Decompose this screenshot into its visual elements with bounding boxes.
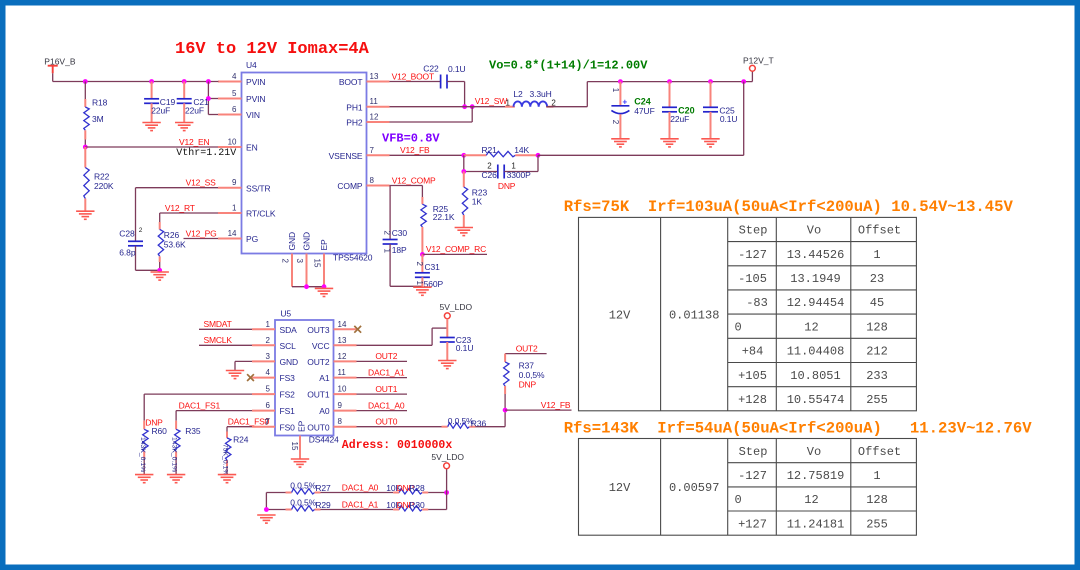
svg-text:7: 7	[264, 418, 269, 427]
U5 pin 8 OUT0	[307, 417, 356, 432]
svg-text:GND: GND	[280, 357, 299, 367]
svg-text:RT/CLK: RT/CLK	[246, 209, 276, 219]
port P12V_T	[743, 56, 774, 82]
svg-text:143K_0.1%: 143K_0.1%	[139, 437, 146, 472]
inductor L2	[505, 89, 556, 108]
svg-text:5: 5	[232, 89, 237, 98]
table2 title Rfs=143K	[564, 420, 1033, 438]
svg-text:22uF: 22uF	[185, 105, 204, 115]
svg-text:1: 1	[266, 320, 271, 329]
capacitor C24	[611, 82, 654, 139]
svg-text:0.00597: 0.00597	[669, 481, 719, 495]
U5 pin 2 SCL	[252, 336, 296, 351]
svg-text:5V_LDO: 5V_LDO	[431, 452, 464, 462]
svg-text:FS0: FS0	[280, 422, 296, 432]
wire VCC net	[357, 328, 448, 345]
svg-text:0: 0	[735, 493, 742, 507]
U4 pin 14 PG	[218, 229, 258, 244]
svg-text:128: 128	[866, 320, 888, 334]
svg-text:V12_RT: V12_RT	[165, 203, 195, 213]
U4 pin 1 RT/CLK	[218, 204, 276, 219]
wire OUT2 top net	[505, 343, 546, 353]
svg-text:18P: 18P	[392, 245, 407, 255]
svg-text:OUT2: OUT2	[516, 343, 538, 353]
port 5V_LDO bottom	[431, 452, 464, 469]
svg-text:13.1949: 13.1949	[790, 272, 840, 286]
ground R24	[218, 475, 236, 483]
ground U5 gnd pin	[226, 371, 244, 379]
U5 pin 14 OUT3	[307, 320, 356, 335]
formula Vo	[489, 59, 648, 73]
svg-text:DAC1_FS1: DAC1_FS1	[179, 400, 221, 410]
svg-text:C26: C26	[482, 170, 498, 180]
svg-text:PH1: PH1	[346, 102, 363, 112]
capacitor C25	[703, 82, 737, 139]
svg-text:Offset: Offset	[858, 224, 901, 238]
svg-text:U5: U5	[280, 309, 291, 319]
table1 Rfs=75K steps	[579, 217, 917, 410]
svg-text:16V to 12V Iomax=4A: 16V to 12V Iomax=4A	[175, 40, 370, 59]
wire OUT2 pin net	[357, 351, 408, 361]
svg-text:A1: A1	[319, 373, 330, 383]
svg-text:SMDAT: SMDAT	[204, 319, 232, 329]
svg-text:Adress: 0010000x: Adress: 0010000x	[342, 439, 453, 452]
svg-text:-127: -127	[738, 469, 767, 483]
ground C24	[611, 139, 629, 147]
svg-text:2: 2	[139, 227, 143, 234]
title text	[175, 40, 370, 59]
svg-text:0: 0	[735, 320, 742, 334]
svg-text:10.8051: 10.8051	[790, 369, 840, 383]
svg-text:Rfs=75K Irf=103uA(50uA<Irf<20: Rfs=75K Irf=103uA(50uA<Irf<200uA) 10.54V…	[564, 198, 1014, 216]
wire COMP_RC net	[422, 244, 487, 254]
wire SMDAT net	[199, 319, 252, 329]
svg-text:TPS54620: TPS54620	[333, 253, 373, 263]
U4 pin 8 COMP	[337, 176, 389, 191]
svg-text:0.0,5%: 0.0,5%	[290, 480, 316, 490]
svg-text:3.3uH: 3.3uH	[530, 89, 552, 99]
node FB left junction	[461, 153, 466, 158]
ground R35	[167, 475, 185, 483]
capacitor C30	[382, 186, 407, 287]
svg-text:1: 1	[232, 204, 237, 213]
wire DAC1_A0 net	[357, 400, 408, 410]
svg-text:0.1U: 0.1U	[456, 343, 474, 353]
svg-text:Step: Step	[739, 445, 768, 459]
ground C23	[438, 361, 456, 369]
resistor R25	[421, 186, 455, 255]
wire R36 to FB node	[476, 410, 506, 427]
U5 pin 1 SDA	[252, 320, 297, 335]
svg-text:DNP: DNP	[519, 380, 537, 390]
wire R28 to 5V_LDO	[428, 469, 449, 495]
svg-text:12: 12	[370, 113, 379, 122]
svg-text:1: 1	[611, 88, 620, 93]
wire OUT0 net	[357, 417, 442, 427]
wire R30 to 5V_LDO riser	[428, 493, 446, 510]
svg-text:BOOT: BOOT	[339, 77, 363, 87]
capacitor C21	[177, 82, 209, 123]
U5 pin 7 FS0	[252, 417, 295, 432]
wire left bus R29	[264, 507, 286, 512]
svg-text:DNP: DNP	[498, 181, 516, 191]
svg-text:15: 15	[313, 259, 322, 268]
svg-text:0.1U: 0.1U	[720, 114, 738, 124]
wire DAC1_A0 bottom net	[321, 483, 394, 493]
resistor R23	[462, 172, 487, 228]
svg-text:SCL: SCL	[280, 341, 297, 351]
wire FS0 net DAC1_FS0	[227, 417, 270, 432]
wire rail branch to PVIN5 VIN6	[206, 82, 218, 115]
svg-text:PVIN: PVIN	[246, 77, 265, 87]
U4 pin 4 PVIN	[218, 72, 265, 87]
wire PH2 net	[390, 107, 473, 122]
wire BOOT net	[390, 71, 441, 81]
resistor R26	[158, 213, 186, 270]
svg-text:45: 45	[870, 296, 884, 310]
U5 pin 11 A1	[319, 368, 356, 383]
svg-text:DAC1_A1: DAC1_A1	[368, 367, 405, 377]
svg-text:SDA: SDA	[280, 325, 298, 335]
svg-text:3M: 3M	[92, 114, 104, 124]
svg-text:+105: +105	[738, 369, 767, 383]
U4 pin 3 GND	[295, 232, 312, 287]
svg-text:VCC: VCC	[312, 341, 330, 351]
svg-text:C30: C30	[392, 228, 408, 238]
svg-text:1: 1	[415, 281, 424, 286]
svg-text:13.44526: 13.44526	[787, 248, 845, 262]
svg-text:1: 1	[873, 248, 880, 262]
svg-text:C31: C31	[425, 262, 441, 272]
svg-text:V12_FB: V12_FB	[400, 145, 430, 155]
svg-text:53.6K: 53.6K	[164, 240, 186, 250]
svg-text:EP: EP	[297, 420, 307, 432]
svg-text:8: 8	[370, 176, 375, 185]
wire U5 gnd	[235, 361, 252, 370]
svg-text:255: 255	[866, 393, 888, 407]
note Adress	[342, 439, 453, 452]
table1 title Rfs=75K	[564, 198, 1014, 216]
svg-text:12V: 12V	[609, 481, 631, 495]
svg-text:255: 255	[866, 517, 888, 531]
node EN junction	[83, 145, 88, 150]
svg-text:V12_PG: V12_PG	[186, 228, 217, 238]
node rail junctions	[83, 79, 211, 84]
svg-text:15: 15	[290, 442, 299, 451]
svg-text:2: 2	[611, 120, 620, 125]
svg-text:7: 7	[370, 146, 375, 155]
resistor R27	[286, 480, 332, 494]
svg-text:PG: PG	[246, 234, 258, 244]
svg-text:Vo: Vo	[807, 224, 821, 238]
svg-text:+: +	[623, 98, 628, 107]
capacitor C19	[144, 82, 175, 123]
capacitor C26 branch	[461, 155, 538, 191]
svg-text:U4: U4	[246, 60, 257, 70]
resistor R28	[386, 483, 428, 494]
svg-text:V12_COMP: V12_COMP	[392, 175, 436, 185]
svg-text:12: 12	[804, 320, 818, 334]
port P16V_B	[44, 56, 76, 73]
svg-text:12: 12	[804, 493, 818, 507]
resistor R29	[286, 497, 332, 511]
svg-text:VIN: VIN	[246, 110, 260, 120]
svg-text:R30: R30	[409, 500, 425, 510]
resistor R22	[84, 147, 114, 211]
wire OUT1 net	[357, 384, 408, 394]
wire V12_FB stub	[505, 400, 571, 410]
svg-text:SMCLK: SMCLK	[204, 335, 233, 345]
svg-text:3300P: 3300P	[507, 170, 532, 180]
no-connect OUT3	[354, 326, 361, 333]
wire EN net	[85, 137, 218, 147]
svg-text:4: 4	[266, 368, 271, 377]
capacitor C31	[415, 254, 444, 289]
svg-text:-127: -127	[738, 248, 767, 262]
svg-text:47UF: 47UF	[634, 106, 654, 116]
svg-text:FS2: FS2	[280, 390, 296, 400]
svg-text:+127: +127	[738, 517, 767, 531]
svg-text:11.24181: 11.24181	[787, 517, 845, 531]
svg-text:212: 212	[866, 345, 888, 359]
node FB right junction	[536, 153, 541, 158]
svg-text:0.01138: 0.01138	[669, 308, 719, 322]
ground C31	[413, 287, 431, 295]
svg-text:R35: R35	[185, 426, 201, 436]
svg-text:12: 12	[338, 352, 347, 361]
U5 pin 13 VCC	[312, 336, 357, 351]
svg-text:DAC1_A0: DAC1_A0	[342, 483, 379, 493]
svg-text:V12_SS: V12_SS	[186, 178, 217, 188]
node SW junctions	[462, 104, 474, 109]
svg-text:10: 10	[228, 138, 237, 147]
svg-text:0.1U: 0.1U	[448, 64, 466, 74]
svg-text:14: 14	[338, 320, 347, 329]
capacitor C28	[119, 188, 143, 271]
svg-text:EP: EP	[319, 239, 329, 251]
svg-text:R21: R21	[482, 145, 498, 155]
svg-text:DAC1_A1: DAC1_A1	[342, 500, 379, 510]
ground R22	[76, 211, 94, 219]
wire SS net	[136, 178, 219, 188]
svg-text:12V: 12V	[609, 308, 631, 322]
svg-text:COMP: COMP	[337, 181, 363, 191]
svg-text:22.1K: 22.1K	[433, 212, 455, 222]
svg-text:12.94454: 12.94454	[787, 296, 845, 310]
capacitor C20	[662, 82, 695, 139]
resistor R35	[171, 421, 201, 475]
svg-text:P12V_T: P12V_T	[743, 56, 774, 66]
U4 pin 5 PVIN	[218, 89, 265, 104]
svg-text:4: 4	[232, 72, 237, 81]
note Vthr	[176, 147, 236, 159]
svg-text:22uF: 22uF	[151, 105, 170, 115]
svg-text:R37: R37	[519, 360, 535, 370]
ground U5 EP	[291, 459, 309, 467]
wire PG net	[184, 228, 219, 238]
ground C25	[701, 139, 719, 147]
svg-text:VSENSE: VSENSE	[329, 151, 363, 161]
svg-text:EN: EN	[246, 143, 258, 153]
resistor R18	[84, 82, 108, 148]
wire RT net	[160, 203, 218, 213]
svg-text:12.75819: 12.75819	[787, 469, 845, 483]
ground C20	[660, 139, 678, 147]
svg-text:PH2: PH2	[346, 118, 363, 128]
svg-text:R28: R28	[409, 483, 425, 493]
node SS RT gnd junction	[157, 268, 162, 273]
op-amp U4 TPS54620 body	[242, 60, 373, 263]
U5 pin 15 EP	[290, 436, 300, 459]
ground U4	[315, 288, 333, 296]
svg-text:75K_0.1%: 75K_0.1%	[222, 444, 229, 475]
svg-text:1: 1	[382, 249, 391, 254]
svg-text:Offset: Offset	[858, 445, 901, 459]
svg-text:5: 5	[266, 385, 271, 394]
svg-text:3: 3	[266, 352, 271, 361]
svg-text:14: 14	[228, 229, 237, 238]
U4 pin 7 VSENSE	[329, 146, 390, 161]
svg-text:DS4424: DS4424	[309, 435, 339, 445]
resistor R30	[386, 500, 428, 511]
svg-text:Vo: Vo	[807, 445, 821, 459]
U4 pin 9 SS/TR	[218, 178, 271, 193]
svg-text:23: 23	[870, 272, 884, 286]
node COMP_RC junction	[420, 252, 425, 257]
svg-text:0.0,5%: 0.0,5%	[519, 370, 545, 380]
svg-text:128: 128	[866, 493, 888, 507]
wire P16V_B to rail	[53, 73, 219, 81]
port 5V_LDO C23	[440, 302, 473, 337]
svg-text:R29: R29	[315, 500, 331, 510]
U4 pin 12 PH2	[346, 113, 389, 128]
svg-text:OUT2: OUT2	[307, 357, 330, 367]
svg-text:5V_LDO: 5V_LDO	[440, 302, 473, 312]
svg-text:-83: -83	[746, 296, 768, 310]
resistor R36	[442, 416, 487, 428]
wire C22 to SW	[447, 82, 465, 107]
ground C19	[142, 123, 160, 131]
U5 pin 9 A0	[319, 401, 356, 416]
svg-text:VFB=0.8V: VFB=0.8V	[382, 132, 440, 146]
svg-text:1: 1	[873, 469, 880, 483]
svg-text:233: 233	[866, 369, 888, 383]
svg-text:OUT3: OUT3	[307, 325, 330, 335]
svg-text:OUT0: OUT0	[307, 422, 330, 432]
svg-text:6: 6	[266, 401, 271, 410]
svg-text:10.55474: 10.55474	[787, 393, 845, 407]
svg-text:220K: 220K	[94, 181, 114, 191]
svg-text:GND: GND	[302, 232, 312, 251]
U4 pin 15 EP	[313, 239, 330, 287]
svg-text:R24: R24	[233, 435, 249, 445]
svg-text:22uF: 22uF	[670, 114, 689, 124]
svg-text:Step: Step	[739, 224, 768, 238]
svg-text:Vo=0.8*(1+14)/1=12.00V: Vo=0.8*(1+14)/1=12.00V	[489, 59, 648, 73]
svg-text:SS/TR: SS/TR	[246, 183, 271, 193]
wire FB to output rail	[538, 82, 744, 156]
svg-text:OUT1: OUT1	[307, 390, 330, 400]
resistor R24	[222, 432, 249, 476]
node V12_FB junction	[503, 408, 508, 413]
svg-text:R18: R18	[92, 97, 108, 107]
U4 pin 13 BOOT	[339, 72, 390, 87]
wire L2 to output rail	[546, 82, 752, 107]
svg-text:L2: L2	[513, 89, 523, 99]
wire COMP net	[390, 175, 436, 185]
svg-text:6: 6	[232, 105, 237, 114]
svg-text:A0: A0	[319, 406, 330, 416]
wire FS1 net DAC1_FS1	[176, 400, 252, 420]
resistor R21	[464, 145, 538, 157]
node output rail junctions	[618, 79, 746, 84]
ground SS RT	[151, 272, 169, 280]
svg-text:+84: +84	[742, 345, 764, 359]
no-connect FS3	[247, 374, 254, 381]
svg-text:DAC1_A0: DAC1_A0	[368, 400, 405, 410]
svg-text:9: 9	[338, 401, 343, 410]
svg-text:OUT2: OUT2	[375, 351, 397, 361]
svg-text:0.0,5%: 0.0,5%	[290, 497, 316, 507]
U5 pin 5 FS2	[252, 385, 295, 400]
svg-text:V12_FB: V12_FB	[541, 400, 571, 410]
svg-text:R26: R26	[164, 230, 180, 240]
svg-text:FS1: FS1	[280, 406, 296, 416]
wire DAC1_A1 net	[357, 367, 408, 377]
ground R23	[455, 228, 473, 236]
U5 pin 6 FS1	[252, 401, 295, 416]
svg-text:GND: GND	[287, 232, 297, 251]
wire SMCLK net	[199, 335, 252, 345]
U4 pin 2 GND	[281, 232, 298, 287]
svg-text:10: 10	[338, 385, 347, 394]
U5 pin 10 OUT1	[307, 385, 356, 400]
wire C30 to gnd	[390, 285, 422, 287]
ground C21	[175, 123, 193, 131]
resistor R60	[139, 417, 167, 474]
svg-text:Vthr=1.21V: Vthr=1.21V	[176, 147, 236, 159]
svg-text:V12_SW: V12_SW	[475, 96, 508, 106]
svg-text:3: 3	[295, 259, 304, 264]
svg-text:OUT0: OUT0	[375, 417, 397, 427]
svg-text:C22: C22	[423, 64, 439, 74]
svg-text:C28: C28	[119, 228, 135, 238]
U5 pin 3 GND	[252, 352, 298, 367]
wire C28 to gnd node	[136, 269, 160, 271]
wire A0 A1 left bus	[266, 493, 285, 510]
svg-text:14K: 14K	[514, 145, 529, 155]
op-amp U5 DS4424 body	[275, 309, 339, 445]
ground A0 A1 bus	[257, 515, 275, 523]
U4 pin 10 EN	[218, 138, 258, 153]
svg-text:OUT1: OUT1	[375, 384, 397, 394]
ground R60	[135, 475, 153, 483]
svg-text:8: 8	[338, 417, 343, 426]
svg-text:2: 2	[415, 262, 424, 267]
svg-text:Rfs=143K Irf=54uA(50uA<Irf<20: Rfs=143K Irf=54uA(50uA<Irf<200uA) 11.23V…	[564, 420, 1033, 438]
svg-text:2: 2	[266, 336, 271, 345]
capacitor C22	[423, 64, 465, 89]
wire U4 gnd bus	[292, 284, 326, 289]
svg-text:11: 11	[370, 97, 379, 106]
svg-text:1K: 1K	[472, 196, 483, 206]
svg-text:R60: R60	[152, 426, 168, 436]
svg-text:R27: R27	[315, 483, 331, 493]
svg-text:6.8p: 6.8p	[119, 248, 136, 258]
svg-text:143K_0.1%: 143K_0.1%	[171, 437, 178, 472]
svg-text:FS3: FS3	[280, 373, 296, 383]
U4 pin 6 VIN	[218, 105, 260, 120]
